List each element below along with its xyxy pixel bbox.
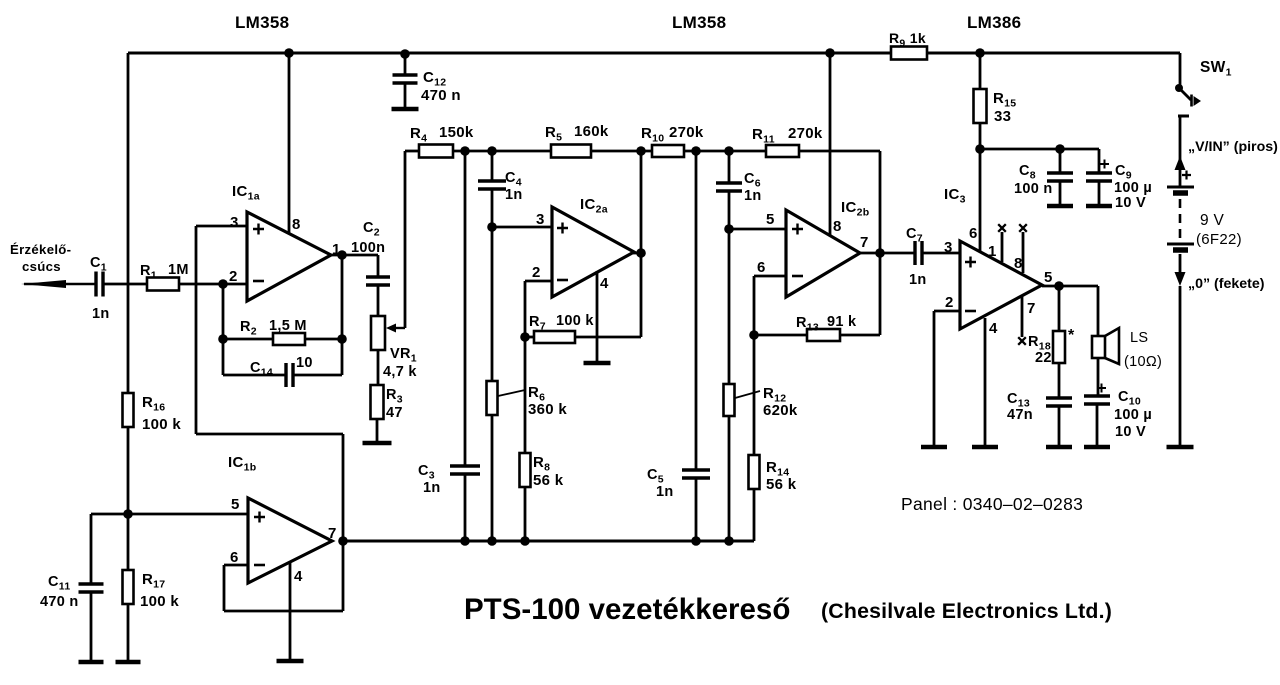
node junction C3 top	[460, 146, 470, 156]
wire R6 to bottom bus	[491, 415, 494, 541]
label V/IN (piros)	[1188, 139, 1278, 155]
node junction R2 right	[337, 334, 347, 344]
label asterisk R18	[1068, 327, 1075, 344]
wire output to speaker	[1097, 286, 1100, 336]
label pin 8 IC2b	[833, 218, 842, 235]
label pin 3 IC1a	[230, 214, 239, 231]
wire C1 to R1	[103, 283, 147, 286]
label title Chesilvale	[821, 599, 1112, 623]
ground under R17	[116, 660, 141, 665]
wire C3 column upper	[464, 151, 467, 466]
label pin 4 IC3	[989, 320, 998, 337]
probe arrow input	[21, 280, 96, 288]
label R18 22	[1028, 334, 1052, 366]
wire R7 right lead	[575, 336, 641, 339]
op-amp IC2b	[786, 210, 860, 297]
wire C3 column lower	[464, 474, 467, 541]
wire C2 to VR1	[377, 285, 380, 316]
label pin 7 IC2b	[860, 234, 869, 251]
battery B1 9V top cell	[1167, 187, 1194, 193]
capacitor C5	[682, 470, 710, 478]
svg-text:LM386: LM386	[967, 13, 1021, 32]
svg-text:3: 3	[536, 211, 545, 228]
svg-text:1n: 1n	[744, 188, 762, 204]
svg-text:6: 6	[230, 549, 239, 566]
node junction IC2a output column	[636, 146, 646, 156]
label pin 8 IC1a	[292, 216, 301, 233]
label C10 100u 10V	[1114, 389, 1152, 440]
svg-text:(10Ω): (10Ω)	[1124, 354, 1162, 370]
label pin 4 IC2a	[600, 275, 609, 292]
label pin 7 IC3	[1027, 300, 1036, 317]
wire IC3 pin6	[979, 149, 982, 253]
capacitor C12	[393, 75, 418, 83]
connector V/IN arrow	[1175, 156, 1186, 170]
label 0 (fekete)	[1188, 276, 1265, 292]
label C9 100u 10V	[1114, 163, 1152, 211]
capacitor C6	[716, 183, 742, 191]
wire bypass caps horizontal	[980, 148, 1099, 151]
label pin 6 IC2b	[757, 259, 766, 276]
svg-text:Érzékelő-: Érzékelő-	[10, 242, 71, 257]
op-amp IC1a	[247, 212, 331, 301]
capacitor C9	[1086, 173, 1112, 181]
node junction IC1b output	[338, 536, 348, 546]
resistor R17	[123, 570, 134, 604]
wire IC2b pin8 to bus	[829, 53, 832, 239]
resistor R5	[551, 145, 591, 158]
svg-text:100 k: 100 k	[140, 593, 179, 610]
svg-text:100 µ: 100 µ	[1114, 407, 1152, 423]
label LM358 (first)	[235, 13, 289, 32]
wire C5 column upper	[695, 151, 698, 470]
svg-text:*: *	[1068, 327, 1075, 344]
resistor R7	[534, 331, 575, 343]
wire R8 to bottom bus	[524, 487, 527, 541]
ground under C10	[1084, 445, 1110, 450]
label Erzekelo-csucs	[10, 242, 71, 274]
label IC2a	[580, 196, 608, 216]
wire IC1b pin5 lead	[128, 513, 250, 516]
svg-text:91 k: 91 k	[827, 314, 857, 330]
wire IC2b output stub	[859, 252, 880, 255]
svg-text:1n: 1n	[656, 484, 674, 500]
label LM358 (second)	[672, 13, 726, 32]
node junction C8 top	[1055, 144, 1065, 154]
node junction top bus at IC2b pin8	[825, 48, 835, 58]
wire C8 lower lead	[1059, 181, 1062, 204]
node junction IC2b output	[875, 248, 885, 258]
wire R13 left lead	[754, 334, 807, 337]
svg-text:6: 6	[757, 259, 766, 276]
node junction IC2b pin5	[724, 224, 734, 234]
wire output down to feedback	[341, 255, 344, 375]
capacitor C8	[1047, 173, 1073, 181]
label R6 360k	[498, 384, 567, 418]
ground under C13	[1046, 445, 1072, 450]
label R12 620k	[735, 385, 798, 419]
svg-text:LS: LS	[1130, 330, 1148, 346]
wire VR1 to R3	[377, 350, 380, 385]
wire feedback vertical x880	[879, 151, 882, 335]
capacitor C3	[450, 466, 480, 474]
wire IC2b output to C7	[880, 252, 915, 255]
wire R2 left lead	[223, 338, 273, 341]
label pin 3 IC3	[944, 239, 953, 256]
wire C2 upper lead	[377, 255, 380, 277]
connector 0 arrow	[1175, 272, 1186, 286]
label R9 1k	[889, 30, 926, 50]
svg-text:„0” (fekete): „0” (fekete)	[1188, 276, 1265, 292]
wire R2 right lead	[305, 338, 342, 341]
svg-text:1n: 1n	[423, 480, 441, 496]
potentiometer VR1 body	[371, 316, 385, 350]
capacitor C13	[1046, 398, 1072, 406]
capacitor C14	[286, 363, 293, 387]
svg-text:360 k: 360 k	[528, 401, 567, 418]
svg-text:4: 4	[600, 275, 609, 292]
label SW1	[1200, 59, 1232, 79]
ground under IC2a pin4	[584, 361, 611, 366]
svg-text:5: 5	[231, 496, 240, 513]
label C14 10	[250, 355, 313, 379]
svg-text:22: 22	[1035, 350, 1052, 366]
node junction IC3 output	[1054, 281, 1064, 291]
svg-text:1M: 1M	[168, 262, 189, 278]
node junction R15 bottom	[975, 144, 985, 154]
wire C9 lower lead	[1098, 181, 1101, 204]
wire R12 column	[728, 229, 731, 384]
label 9V (6F22)	[1196, 212, 1242, 248]
svg-text:8: 8	[833, 218, 842, 235]
svg-text:4: 4	[294, 568, 303, 585]
svg-text:4,7 k: 4,7 k	[383, 364, 417, 380]
resistor R10	[652, 145, 684, 157]
node junction C5 bottom	[691, 536, 701, 546]
wire R6 column	[491, 227, 494, 381]
op-amp IC1b	[248, 498, 332, 583]
node junction C5 top	[691, 146, 701, 156]
wire C14 left lead	[223, 374, 286, 377]
svg-text:2: 2	[229, 268, 238, 285]
svg-text:5: 5	[766, 211, 775, 228]
node junction R12 bottom	[724, 536, 734, 546]
battery plus sign	[1182, 171, 1191, 180]
label C13 47n	[1007, 391, 1033, 423]
capacitor C10 plus sign	[1097, 384, 1106, 393]
resistor R8	[520, 453, 531, 487]
potentiometer VR1 wiper arrow	[386, 324, 405, 333]
wire top supply bus (left section to R9)	[128, 52, 891, 55]
label C4 1n	[505, 170, 523, 203]
wire C14 right lead	[293, 374, 342, 377]
node junction R7 left	[520, 332, 530, 342]
wire IC1a pin3 vertical to reference	[195, 226, 198, 434]
svg-text:33: 33	[994, 108, 1011, 125]
wire C6 lower lead	[728, 191, 731, 229]
wire IC1a pin8 to bus	[288, 53, 291, 236]
resistor R4	[419, 145, 453, 158]
ground under IC3 pin2	[921, 445, 947, 450]
ground under IC3 pin4	[972, 445, 998, 450]
wire battery to 0 connector	[1179, 254, 1182, 272]
node junction R13 left	[749, 330, 759, 340]
svg-text:1: 1	[988, 243, 997, 260]
svg-text:100n: 100n	[351, 240, 385, 256]
wire C10 to ground	[1096, 404, 1099, 445]
wire R18 to C13	[1058, 363, 1061, 398]
svg-text:100 k: 100 k	[556, 313, 594, 329]
wire top bus right corner down	[1179, 53, 1182, 87]
svg-text:1n: 1n	[505, 187, 523, 203]
label C12 470n	[421, 69, 461, 104]
label C11 470n	[40, 574, 79, 610]
svg-text:2: 2	[532, 264, 541, 281]
svg-text:1,5 M: 1,5 M	[269, 318, 307, 334]
node junction IC1b pin5	[123, 509, 133, 519]
svg-text:100 n: 100 n	[1014, 181, 1053, 197]
svg-text:47n: 47n	[1007, 407, 1033, 423]
capacitor C1	[96, 272, 103, 297]
label pin 2 IC2a	[532, 264, 541, 281]
label LS (10ohm)	[1124, 330, 1162, 370]
wire IC3 pin1 stub	[998, 224, 1006, 262]
svg-text:150k: 150k	[439, 124, 474, 141]
node junction R6 bottom	[487, 536, 497, 546]
svg-text:1n: 1n	[909, 272, 927, 288]
wire IC2a pin2 lead	[525, 281, 554, 337]
wire R13 right lead	[840, 334, 880, 337]
label R3 47	[386, 387, 403, 421]
node junction C6 top	[724, 146, 734, 156]
wire R4 left corner down to wiper	[404, 151, 407, 328]
label R13 91k	[796, 314, 857, 334]
capacitor C9 plus sign	[1100, 160, 1109, 169]
label R10 270k	[641, 124, 704, 145]
svg-text:6: 6	[969, 225, 978, 242]
wire node to R17	[127, 514, 130, 570]
wire bottom reference bus	[343, 540, 754, 543]
wire C4 upper lead	[491, 151, 494, 181]
wire IC2a pin4 to ground	[596, 271, 599, 361]
label pin 4 IC1b	[294, 568, 303, 585]
wire C6 upper lead	[728, 151, 731, 183]
svg-text:Panel : 0340–02–0283: Panel : 0340–02–0283	[901, 494, 1083, 514]
wire IC1b pin6 lead	[224, 565, 250, 611]
svg-text:3: 3	[230, 214, 239, 231]
svg-text:470 n: 470 n	[40, 594, 79, 610]
svg-text:8: 8	[292, 216, 301, 233]
resistor R16	[123, 393, 134, 427]
label R16 100k	[142, 394, 181, 433]
label R11 270k	[752, 125, 823, 146]
label title PTS-100	[464, 593, 790, 626]
wire R1 to IC1a pin2	[179, 283, 248, 286]
label pin 8 IC3	[1014, 255, 1023, 272]
wire C12 from bus	[404, 54, 407, 75]
svg-text:LM358: LM358	[235, 13, 289, 32]
wire R14 column	[753, 335, 756, 455]
wire IC3 pin4 to ground	[984, 318, 987, 445]
label C6 1n	[744, 171, 762, 204]
ground under C12	[392, 107, 419, 112]
label C2 100n	[351, 220, 385, 256]
op-amp IC2a	[552, 207, 634, 297]
speaker LS	[1092, 328, 1119, 364]
resistor R3	[371, 385, 384, 419]
wire R7 left lead	[525, 336, 534, 339]
node junction top bus at IC1a pin8	[284, 48, 294, 58]
label IC2b	[841, 199, 869, 219]
svg-text:PTS-100 vezetékkereső: PTS-100 vezetékkereső	[464, 593, 790, 626]
wire IC2b pin6 lead	[754, 276, 788, 335]
wire IC2a output column	[640, 151, 643, 337]
label pin 1 IC1a	[332, 241, 341, 258]
wire R15 upper lead	[979, 53, 982, 89]
node junction IC2a pin3	[487, 222, 497, 232]
wire bus R10 to R11	[684, 150, 766, 153]
wire IC3 pin2 lead	[934, 311, 962, 445]
node junction IC1a output	[337, 250, 347, 260]
label C5 1n	[647, 467, 674, 500]
wire speaker to C10	[1097, 358, 1100, 396]
wire left vertical from bus to R16	[127, 53, 130, 393]
ground under R3	[363, 441, 392, 446]
label C8 100n	[1014, 163, 1053, 197]
switch SW1	[1175, 84, 1201, 116]
wire C11 to ground	[90, 592, 93, 660]
capacitor C2	[366, 277, 390, 285]
svg-text:160k: 160k	[574, 123, 609, 140]
wire C11 branch	[91, 514, 128, 584]
wire pin2 node down to R2/C14	[222, 284, 225, 375]
label R1 1M	[140, 262, 189, 282]
node junction pin2/R2	[218, 279, 228, 289]
svg-text:(6F22): (6F22)	[1196, 231, 1242, 248]
svg-text:56 k: 56 k	[533, 472, 564, 489]
label pin 1 IC3	[988, 243, 997, 260]
wire R3 to ground	[376, 419, 379, 441]
wire bus R5 to R10	[591, 150, 652, 153]
label pin 5 IC2b	[766, 211, 775, 228]
label R7 100k	[529, 313, 594, 333]
wire IC2a output stub	[633, 252, 641, 255]
label pin 2 IC3	[945, 294, 954, 311]
capacitor C7	[915, 241, 922, 265]
battery B1 bottom cell	[1167, 244, 1194, 250]
resistor R12	[724, 384, 735, 416]
label IC1b	[228, 454, 256, 474]
capacitor C4	[478, 181, 506, 189]
label R4 150k	[410, 124, 474, 145]
label pin 5 IC3	[1044, 269, 1053, 286]
label pin 6 IC3	[969, 225, 978, 242]
label C7 1n	[906, 226, 927, 288]
label C3 1n	[418, 463, 441, 496]
wire IC1a pin3 lead	[196, 225, 250, 228]
label pin 6 IC1b	[230, 549, 239, 566]
wire R4 left lead	[405, 150, 419, 153]
svg-text:„V/IN” (piros): „V/IN” (piros)	[1188, 139, 1278, 155]
wire IC2a pin3 lead	[492, 226, 554, 229]
label IC1a	[232, 183, 260, 203]
label R2 1,5M	[240, 318, 307, 338]
wire IC3 pin7 stub	[1018, 296, 1026, 345]
resistor R9	[891, 47, 927, 60]
node junction C3 bottom	[460, 536, 470, 546]
svg-text:8: 8	[1014, 255, 1023, 272]
wire IC1b pin4 to ground	[289, 562, 292, 659]
label R5 160k	[545, 123, 609, 144]
label R15 33	[993, 90, 1016, 125]
wire R16 to node	[127, 427, 130, 514]
label LM386	[967, 13, 1021, 32]
ground under C11	[79, 660, 104, 665]
resistor R2	[273, 333, 305, 345]
svg-text:5: 5	[1044, 269, 1053, 286]
wire C5 column lower	[695, 478, 698, 541]
ground battery negative	[1167, 445, 1194, 450]
wire 0 connector to ground	[1179, 286, 1182, 445]
label R17 100k	[140, 571, 179, 610]
wire R8 column	[524, 337, 527, 453]
label R14 56k	[766, 459, 797, 493]
label R8 56k	[533, 454, 564, 489]
ground under C9	[1086, 204, 1112, 209]
svg-text:10 V: 10 V	[1115, 424, 1146, 440]
wire C8 upper lead	[1059, 149, 1062, 173]
wire bus R4 to R5	[453, 150, 551, 153]
op-amp IC3	[960, 241, 1042, 329]
svg-text:47: 47	[386, 405, 403, 421]
label pin 2 IC1a	[229, 268, 238, 285]
resistor R11	[766, 145, 799, 157]
svg-text:LM358: LM358	[672, 13, 726, 32]
resistor R15	[974, 89, 987, 123]
svg-text:7: 7	[860, 234, 869, 251]
svg-text:4: 4	[989, 320, 998, 337]
wire C9 upper lead	[1098, 149, 1101, 173]
svg-text:2: 2	[945, 294, 954, 311]
capacitor C10	[1084, 396, 1110, 404]
label pin 5 IC1b	[231, 496, 240, 513]
wire IC2b pin5 lead	[729, 228, 788, 231]
label IC3	[944, 186, 966, 206]
svg-text:csúcs: csúcs	[22, 259, 61, 274]
node junction C4 top	[487, 146, 497, 156]
node junction IC2a output	[636, 248, 646, 258]
resistor R6	[487, 381, 498, 415]
svg-text:620k: 620k	[763, 402, 798, 419]
wire R12 to bottom bus	[728, 416, 731, 541]
resistor R14	[749, 455, 760, 489]
label VR1 4,7k	[383, 346, 417, 380]
resistor R18	[1053, 331, 1065, 363]
wire IC1b feedback to output	[342, 541, 345, 611]
svg-text:270k: 270k	[669, 124, 704, 141]
svg-text:470 n: 470 n	[421, 87, 461, 104]
label Panel number	[901, 494, 1083, 514]
svg-text:270k: 270k	[788, 125, 823, 142]
wire C12 lower lead	[404, 83, 407, 108]
label pin 7 IC1b	[328, 525, 337, 542]
wire R17 to ground	[127, 604, 130, 660]
wire IC1a output	[331, 254, 378, 257]
capacitor C11	[79, 584, 104, 592]
resistor R1	[147, 278, 179, 291]
wire R15 lower lead	[979, 123, 982, 149]
svg-text:100 k: 100 k	[142, 416, 181, 433]
